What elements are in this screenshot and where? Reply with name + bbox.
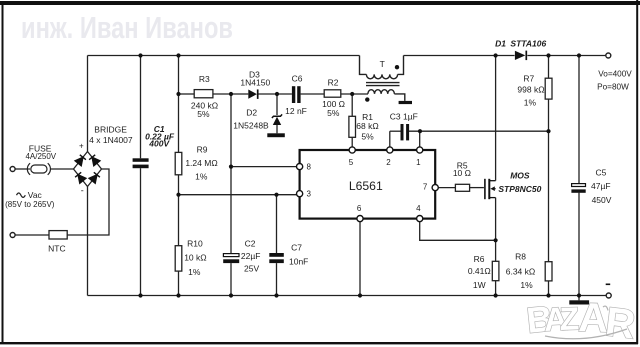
- resistor R8: [545, 262, 552, 281]
- wire source vertical: [495, 198, 497, 262]
- junction D3 anode: [229, 92, 233, 96]
- junction C2 bottom rail: [229, 293, 233, 297]
- junction D2 node: [275, 92, 279, 96]
- node secondary phase dot: [365, 97, 369, 101]
- svg-text:STTA106: STTA106: [510, 39, 546, 49]
- wire pin1 riser: [419, 131, 421, 147]
- wire top rail right segment: [527, 55, 605, 57]
- wire pin3 row: [179, 194, 297, 196]
- wire bridge plus riser: [87, 56, 89, 152]
- svg-text:4A/250V: 4A/250V: [25, 152, 56, 161]
- wire pin2 riser: [389, 131, 391, 147]
- IC pin circles: [297, 147, 439, 222]
- node bridge diamond: [74, 152, 102, 187]
- wire C1 branch lower: [140, 168, 142, 295]
- svg-text:T: T: [380, 59, 385, 69]
- pin 6: [357, 216, 363, 222]
- svg-text:4: 4: [416, 204, 421, 213]
- svg-text:1%: 1%: [520, 280, 533, 290]
- svg-text:R6: R6: [474, 254, 485, 264]
- svg-text:-: -: [81, 186, 84, 196]
- junction C1 bottom rail: [138, 293, 142, 297]
- svg-text:R10: R10: [187, 239, 203, 249]
- svg-text:10 Ω: 10 Ω: [453, 168, 471, 178]
- resistor R1: [349, 116, 356, 137]
- wire R9 to pin3 node: [178, 175, 180, 246]
- svg-text:0.41Ω: 0.41Ω: [468, 266, 491, 276]
- svg-text:Po=80W: Po=80W: [597, 82, 629, 91]
- junction R6 bottom rail: [494, 293, 498, 297]
- node primary phase dot: [395, 65, 399, 69]
- svg-text:C6: C6: [292, 74, 303, 84]
- wire D2 anode to ground: [276, 125, 278, 134]
- junction drain top rail: [494, 53, 498, 57]
- wire pin6 to bottom rail: [359, 222, 361, 296]
- svg-text:R9: R9: [197, 145, 208, 155]
- svg-text:22µF: 22µF: [241, 251, 261, 261]
- svg-text:998 kΩ: 998 kΩ: [517, 85, 544, 95]
- svg-text:25V: 25V: [244, 263, 259, 273]
- junction C5 top rail: [577, 53, 581, 57]
- junction R8 bottom rail: [546, 293, 550, 297]
- svg-text:5%: 5%: [197, 109, 210, 119]
- wire C2 branch upper: [230, 94, 232, 253]
- svg-text:1N4150: 1N4150: [240, 78, 270, 88]
- svg-text:C2: C2: [245, 239, 256, 249]
- svg-text:6.34 kΩ: 6.34 kΩ: [506, 266, 536, 276]
- wire NTC to input terminal: [15, 234, 49, 236]
- svg-text:450V: 450V: [592, 195, 612, 205]
- svg-text:BRIDGE: BRIDGE: [94, 125, 127, 135]
- svg-text:L6561: L6561: [349, 179, 383, 193]
- resistor R2: [324, 90, 341, 97]
- terminal input L: [10, 167, 15, 172]
- label C1 value: [145, 124, 175, 148]
- svg-text:Vo=400V: Vo=400V: [598, 70, 632, 79]
- diode D3: [240, 69, 270, 99]
- junction C2 pin8 row: [229, 165, 233, 169]
- wire R3 branch from top rail: [178, 56, 180, 153]
- wire R2 to transformer node and secondary lead: [341, 93, 368, 95]
- ground symbol secondary: [399, 101, 412, 104]
- wire pin2 to C3: [390, 130, 401, 132]
- svg-text:1: 1: [416, 158, 421, 167]
- svg-text:STP8NC50: STP8NC50: [498, 184, 541, 194]
- svg-text:400V: 400V: [148, 138, 170, 148]
- wire R3 row left: [179, 93, 195, 95]
- junction R3 left: [176, 92, 180, 96]
- ground symbol under D2: [267, 133, 285, 137]
- wire bridge right vertex to NTC riser: [67, 169, 109, 235]
- svg-text:R7: R7: [523, 74, 534, 84]
- svg-text:инж. Иван Иванов: инж. Иван Иванов: [21, 10, 233, 45]
- wire C3 row to R7 bottom: [409, 130, 549, 132]
- svg-text:5%: 5%: [361, 131, 374, 141]
- wire fuse input: [15, 168, 27, 170]
- junction source pin4 row: [494, 238, 498, 242]
- resistor R7: [548, 56, 550, 262]
- junction C3 pin1: [418, 129, 422, 133]
- svg-text:MOS: MOS: [510, 170, 530, 180]
- svg-text:D1: D1: [495, 39, 506, 49]
- bridge diode top-right: [92, 157, 100, 165]
- pin 2: [387, 147, 393, 153]
- svg-text:C3 1µF: C3 1µF: [390, 112, 418, 122]
- junction R9 R10 pin3 row: [176, 193, 180, 197]
- wire top rail mid segment: [404, 55, 515, 57]
- svg-text:D2: D2: [246, 108, 257, 118]
- svg-text:(85V to 265V): (85V to 265V): [5, 200, 55, 209]
- wire D2 branch: [276, 94, 278, 115]
- label minus: [606, 283, 611, 285]
- wire C7 branch upper: [276, 195, 278, 253]
- junction C1 top rail: [138, 53, 142, 57]
- capacitor C2 electrolytic: [223, 254, 239, 263]
- op-amp U1 L6561 IC body: [300, 150, 436, 219]
- label Vac: [17, 193, 26, 197]
- pin 5: [349, 147, 355, 153]
- svg-text:1%: 1%: [188, 267, 201, 277]
- bridge diode bottom-right: [89, 175, 97, 183]
- pin 3: [297, 191, 303, 197]
- svg-text:3: 3: [306, 190, 311, 199]
- transformer T core: [366, 83, 400, 86]
- watermark logo BAZAR: [525, 294, 638, 347]
- wire pin7 to R5: [438, 187, 455, 189]
- junction pin6 bottom rail: [358, 293, 362, 297]
- pin 4: [417, 216, 423, 222]
- svg-text:Vac: Vac: [28, 190, 43, 200]
- capacitor C6: [292, 86, 301, 103]
- svg-text:68 kΩ: 68 kΩ: [356, 121, 378, 131]
- wire drain vertical: [495, 56, 497, 181]
- resistor R9: [175, 152, 182, 174]
- resistor R6: [492, 261, 499, 280]
- transformer T primary: [360, 56, 404, 79]
- pin 8: [297, 164, 303, 170]
- junction C5 bottom rail: [577, 293, 581, 297]
- diode D1: [495, 39, 546, 61]
- capacitor C3: [401, 124, 410, 140]
- svg-text:1N5248B: 1N5248B: [233, 120, 269, 130]
- junction R7 top rail: [546, 53, 550, 57]
- junction R10 bottom rail: [176, 293, 180, 297]
- wire R1 top: [351, 94, 353, 116]
- svg-text:10nF: 10nF: [289, 257, 308, 267]
- wire pin5 riser: [351, 137, 353, 147]
- svg-text:+: +: [79, 142, 84, 151]
- junction C7 pin3 row: [274, 193, 278, 197]
- svg-text:R2: R2: [328, 78, 339, 88]
- wire pin4 to source node: [420, 222, 496, 241]
- pin 7: [432, 185, 438, 191]
- wire C2 to bottom rail: [230, 263, 232, 295]
- wire bridge minus to bottom rail: [87, 187, 89, 296]
- svg-text:10 kΩ: 10 kΩ: [184, 252, 206, 262]
- resistor R5: [455, 184, 469, 191]
- svg-text:R3: R3: [199, 74, 210, 84]
- svg-text:2: 2: [386, 158, 391, 167]
- junction R7 bottom: [546, 129, 550, 133]
- svg-text:47µF: 47µF: [591, 181, 611, 191]
- wire D3 to D2 node: [258, 93, 292, 95]
- capacitor C5 electrolytic: [578, 56, 580, 296]
- wire bottom rail: [88, 295, 607, 297]
- terminal input N: [10, 233, 15, 238]
- NTC thermistor: [49, 231, 67, 239]
- capacitor C1: [133, 158, 149, 168]
- svg-text:1.24 MΩ: 1.24 MΩ: [185, 158, 217, 168]
- svg-text:1%: 1%: [195, 172, 208, 182]
- capacitor C7: [269, 253, 284, 263]
- wire C7 to bottom rail: [276, 263, 278, 295]
- terminal output plus: [606, 53, 611, 58]
- fuse F1: [27, 163, 50, 175]
- wire C6 to R2: [301, 93, 325, 95]
- pin 1: [417, 147, 423, 153]
- svg-text:NTC: NTC: [48, 244, 65, 254]
- wire fuse to bridge: [50, 168, 73, 170]
- bridge diode bottom-left: [78, 175, 86, 183]
- bridge diode top-left: [75, 157, 83, 165]
- svg-text:R: R: [603, 298, 638, 347]
- resistor R10: [175, 246, 182, 271]
- wire R3 to D3: [213, 93, 248, 95]
- svg-text:C5: C5: [595, 168, 606, 178]
- svg-text:6: 6: [357, 204, 362, 213]
- zener diode D2: [233, 108, 282, 131]
- junction C7 bottom rail: [274, 293, 278, 297]
- svg-text:R8: R8: [515, 252, 526, 262]
- junction R3 branch top rail: [176, 53, 180, 57]
- svg-text:C7: C7: [291, 243, 302, 253]
- svg-text:4 x 1N4007: 4 x 1N4007: [89, 135, 133, 145]
- wire R10 to bottom rail: [178, 271, 180, 295]
- svg-text:12 nF: 12 nF: [285, 106, 307, 116]
- transformer T secondary: [368, 90, 405, 101]
- svg-text:8: 8: [306, 163, 311, 172]
- terminal output minus: [606, 293, 611, 298]
- svg-text:1%: 1%: [524, 98, 537, 108]
- wire top rail left segment: [88, 55, 360, 57]
- svg-text:5%: 5%: [327, 108, 340, 118]
- svg-text:5: 5: [349, 158, 354, 167]
- wire C1 branch upper: [140, 56, 142, 159]
- resistor R3: [194, 90, 213, 98]
- wire R5 to gate: [470, 187, 484, 189]
- svg-text:7: 7: [423, 183, 428, 192]
- ground symbol output: [578, 296, 580, 301]
- transistor Q1 MOSFET STP8NC50: [485, 179, 496, 199]
- wire pin8 row: [231, 166, 297, 168]
- junction R1 secondary node: [350, 92, 354, 96]
- svg-text:Z: Z: [559, 300, 580, 337]
- svg-text:1W: 1W: [473, 280, 486, 290]
